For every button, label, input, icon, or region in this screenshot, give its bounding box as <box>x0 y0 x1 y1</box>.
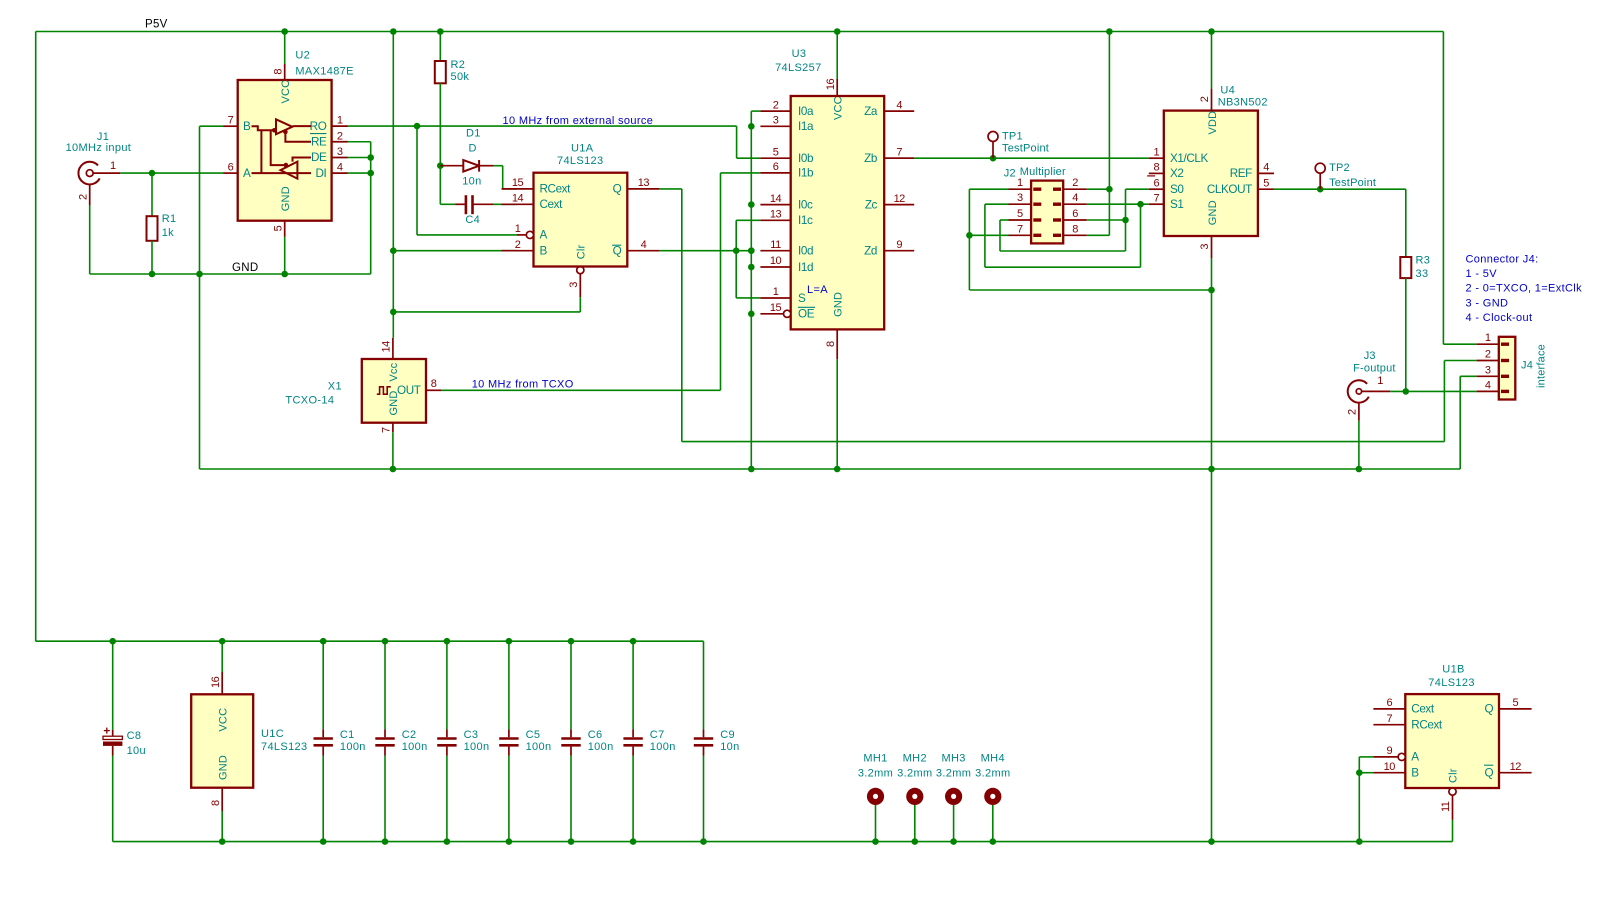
svg-text:D: D <box>469 143 477 155</box>
svg-text:2: 2 <box>515 239 521 251</box>
svg-text:3: 3 <box>1199 244 1211 250</box>
svg-text:8: 8 <box>1072 223 1078 235</box>
svg-text:I0d: I0d <box>798 245 813 258</box>
svg-text:C4: C4 <box>465 214 480 226</box>
svg-text:1: 1 <box>1377 375 1383 387</box>
svg-text:S0: S0 <box>1170 183 1184 196</box>
svg-text:REF: REF <box>1230 167 1252 180</box>
svg-text:B: B <box>243 120 251 133</box>
svg-text:2: 2 <box>773 99 779 111</box>
svg-text:U2: U2 <box>295 50 310 62</box>
svg-text:TestPoint: TestPoint <box>1002 143 1049 155</box>
svg-text:5: 5 <box>1017 208 1023 220</box>
svg-text:Q: Q <box>1484 767 1493 780</box>
svg-text:R2: R2 <box>451 59 466 71</box>
svg-text:74LS257: 74LS257 <box>775 62 822 74</box>
svg-text:MAX1487E: MAX1487E <box>295 66 353 78</box>
svg-text:11: 11 <box>770 239 781 251</box>
svg-text:CLKOUT: CLKOUT <box>1207 183 1252 196</box>
svg-text:16: 16 <box>825 78 837 90</box>
svg-text:U1C: U1C <box>261 728 284 740</box>
svg-text:50k: 50k <box>451 71 470 83</box>
svg-text:VCC: VCC <box>217 708 229 732</box>
svg-text:GND: GND <box>833 292 845 317</box>
svg-text:J3: J3 <box>1364 350 1376 362</box>
svg-text:U1A: U1A <box>571 143 594 155</box>
svg-text:74LS123: 74LS123 <box>1428 677 1475 689</box>
svg-text:VDD: VDD <box>1207 111 1219 135</box>
svg-text:A: A <box>1411 751 1419 764</box>
svg-text:5: 5 <box>1512 697 1518 709</box>
svg-text:1: 1 <box>515 223 521 235</box>
svg-text:6: 6 <box>773 161 779 173</box>
svg-text:4: 4 <box>641 239 647 251</box>
svg-text:C6: C6 <box>588 729 603 741</box>
svg-text:U3: U3 <box>792 48 807 60</box>
svg-text:U4: U4 <box>1220 84 1235 96</box>
svg-text:Multiplier: Multiplier <box>1020 166 1066 178</box>
svg-text:4: 4 <box>896 99 902 111</box>
svg-text:8: 8 <box>431 378 437 390</box>
svg-text:Q: Q <box>613 245 622 258</box>
svg-text:2: 2 <box>1072 177 1078 189</box>
svg-text:3: 3 <box>568 282 580 288</box>
svg-text:7: 7 <box>1386 713 1392 725</box>
svg-text:100n: 100n <box>464 741 490 753</box>
svg-text:3.2mm: 3.2mm <box>858 767 893 779</box>
svg-text:100n: 100n <box>526 741 552 753</box>
svg-text:8: 8 <box>210 800 222 806</box>
svg-text:C7: C7 <box>650 729 665 741</box>
svg-text:15: 15 <box>770 302 782 314</box>
svg-text:9: 9 <box>1386 745 1392 757</box>
svg-text:X1/CLK: X1/CLK <box>1170 152 1208 165</box>
svg-text:X1: X1 <box>328 381 342 393</box>
svg-text:3.2mm: 3.2mm <box>975 767 1010 779</box>
svg-text:100n: 100n <box>402 741 428 753</box>
svg-text:7: 7 <box>1153 192 1159 204</box>
svg-text:MH3: MH3 <box>941 752 965 764</box>
svg-text:C2: C2 <box>402 729 417 741</box>
svg-text:R1: R1 <box>162 213 177 225</box>
svg-text:Zb: Zb <box>864 152 878 165</box>
svg-text:3.2mm: 3.2mm <box>936 767 971 779</box>
svg-text:10 MHz from TCXO: 10 MHz from TCXO <box>472 379 574 391</box>
svg-text:B: B <box>540 245 548 258</box>
svg-text:7: 7 <box>896 146 902 158</box>
svg-text:3: 3 <box>1485 364 1491 376</box>
svg-text:2: 2 <box>337 130 343 142</box>
svg-text:P5V: P5V <box>145 19 168 31</box>
svg-text:4 - Clock-out: 4 - Clock-out <box>1466 312 1533 324</box>
svg-text:OUT: OUT <box>397 384 421 397</box>
svg-text:I0c: I0c <box>798 198 813 211</box>
svg-text:2: 2 <box>1199 96 1211 102</box>
svg-text:X2: X2 <box>1170 167 1184 180</box>
svg-text:OE: OE <box>798 308 815 321</box>
svg-text:2: 2 <box>77 194 89 200</box>
svg-text:15: 15 <box>512 177 524 189</box>
svg-text:1: 1 <box>110 160 116 172</box>
svg-text:TCXO-14: TCXO-14 <box>285 395 334 407</box>
svg-text:9: 9 <box>896 239 902 251</box>
svg-text:C3: C3 <box>464 729 479 741</box>
svg-text:1: 1 <box>1485 332 1491 344</box>
svg-text:1: 1 <box>773 286 779 298</box>
svg-text:D1: D1 <box>466 128 481 140</box>
svg-text:F-output: F-output <box>1353 362 1396 374</box>
svg-text:Clr: Clr <box>1448 768 1460 783</box>
svg-text:C5: C5 <box>526 729 541 741</box>
svg-text:1: 1 <box>337 115 343 127</box>
svg-text:B: B <box>1411 767 1419 780</box>
svg-text:8: 8 <box>1153 162 1159 174</box>
svg-text:14: 14 <box>381 341 393 353</box>
svg-text:I0b: I0b <box>798 152 814 165</box>
svg-text:Connector J4:: Connector J4: <box>1466 253 1539 265</box>
svg-text:NB3N502: NB3N502 <box>1218 96 1268 108</box>
svg-text:VCC: VCC <box>833 96 845 120</box>
svg-text:10: 10 <box>770 255 782 267</box>
svg-text:4: 4 <box>1485 379 1491 391</box>
svg-text:C9: C9 <box>720 729 735 741</box>
svg-text:Cext: Cext <box>540 198 564 211</box>
svg-text:RE: RE <box>311 136 327 149</box>
svg-text:U1B: U1B <box>1442 664 1464 676</box>
svg-text:7: 7 <box>381 427 393 433</box>
svg-text:74LS123: 74LS123 <box>557 155 604 167</box>
svg-text:8: 8 <box>272 69 284 75</box>
svg-text:I1c: I1c <box>798 214 813 227</box>
svg-text:I1a: I1a <box>798 120 814 133</box>
svg-text:1k: 1k <box>162 227 174 239</box>
svg-text:100n: 100n <box>340 741 366 753</box>
svg-text:L=A: L=A <box>807 284 828 296</box>
svg-text:10 MHz from external source: 10 MHz from external source <box>503 115 654 127</box>
svg-text:12: 12 <box>894 193 906 205</box>
svg-text:DI: DI <box>316 167 327 180</box>
svg-text:5: 5 <box>773 146 779 158</box>
svg-text:16: 16 <box>210 676 222 688</box>
svg-text:4: 4 <box>1263 162 1269 174</box>
svg-text:GND: GND <box>388 390 400 415</box>
svg-text:RCext: RCext <box>540 183 572 196</box>
svg-text:13: 13 <box>770 209 782 221</box>
svg-text:7: 7 <box>1017 223 1023 235</box>
svg-text:MH2: MH2 <box>903 752 927 764</box>
svg-text:1: 1 <box>1153 146 1159 158</box>
svg-text:C1: C1 <box>340 729 355 741</box>
svg-text:12: 12 <box>1510 761 1522 773</box>
svg-text:RCext: RCext <box>1411 719 1443 732</box>
svg-text:10u: 10u <box>127 745 146 757</box>
svg-text:100n: 100n <box>650 741 676 753</box>
svg-text:I1d: I1d <box>798 261 813 274</box>
svg-text:MH1: MH1 <box>863 752 887 764</box>
svg-text:100n: 100n <box>588 741 614 753</box>
svg-text:GND: GND <box>1207 200 1219 225</box>
svg-text:GND: GND <box>280 186 292 211</box>
svg-text:J2: J2 <box>1004 168 1016 180</box>
svg-text:J1: J1 <box>97 131 109 143</box>
svg-text:R3: R3 <box>1416 255 1431 267</box>
svg-text:MH4: MH4 <box>981 752 1005 764</box>
svg-text:14: 14 <box>512 193 524 205</box>
svg-text:TestPoint: TestPoint <box>1329 177 1376 189</box>
svg-text:10n: 10n <box>462 175 481 187</box>
svg-text:I1b: I1b <box>798 167 814 180</box>
svg-text:TP2: TP2 <box>1329 162 1350 174</box>
svg-text:8: 8 <box>825 341 837 347</box>
svg-text:2: 2 <box>1347 409 1359 415</box>
svg-text:I0a: I0a <box>798 105 814 118</box>
svg-text:Za: Za <box>864 105 878 118</box>
svg-text:10: 10 <box>1384 761 1396 773</box>
svg-text:14: 14 <box>770 193 782 205</box>
svg-text:2 - 0=TXCO, 1=ExtClk: 2 - 0=TXCO, 1=ExtClk <box>1466 283 1583 295</box>
svg-text:3 - GND: 3 - GND <box>1466 297 1509 309</box>
svg-text:4: 4 <box>337 162 343 174</box>
svg-text:2: 2 <box>1485 349 1491 361</box>
svg-text:Q: Q <box>613 183 622 196</box>
svg-text:S: S <box>798 292 806 305</box>
svg-text:6: 6 <box>1072 208 1078 220</box>
svg-text:DE: DE <box>311 151 327 164</box>
svg-text:3: 3 <box>337 146 343 158</box>
svg-text:5: 5 <box>1263 177 1269 189</box>
svg-text:5: 5 <box>272 225 284 231</box>
svg-text:33: 33 <box>1416 268 1429 280</box>
svg-text:6: 6 <box>1386 697 1392 709</box>
svg-text:3: 3 <box>773 115 779 127</box>
svg-text:A: A <box>540 229 548 242</box>
svg-text:RO: RO <box>310 120 327 133</box>
svg-text:74LS123: 74LS123 <box>261 741 308 753</box>
svg-text:Zc: Zc <box>865 198 878 211</box>
svg-text:A: A <box>243 167 251 180</box>
svg-text:11: 11 <box>1440 801 1452 812</box>
svg-text:GND: GND <box>232 262 258 274</box>
svg-text:7: 7 <box>228 115 234 127</box>
svg-text:Clr: Clr <box>576 245 588 260</box>
svg-text:10MHz input: 10MHz input <box>66 142 132 154</box>
svg-text:13: 13 <box>638 177 650 189</box>
svg-text:6: 6 <box>1153 177 1159 189</box>
svg-text:Q: Q <box>1484 703 1493 716</box>
svg-text:Vcc: Vcc <box>388 362 400 381</box>
svg-text:J4: J4 <box>1521 359 1533 371</box>
svg-text:VCC: VCC <box>280 80 292 104</box>
svg-text:C8: C8 <box>127 730 142 742</box>
svg-text:TP1: TP1 <box>1002 131 1023 143</box>
svg-text:S1: S1 <box>1170 198 1184 211</box>
svg-text:3: 3 <box>1017 192 1023 204</box>
svg-text:Cext: Cext <box>1411 703 1435 716</box>
svg-text:interface: interface <box>1536 344 1548 388</box>
svg-text:1: 1 <box>1017 177 1023 189</box>
svg-text:4: 4 <box>1072 192 1078 204</box>
svg-text:GND: GND <box>217 755 229 780</box>
svg-text:Zd: Zd <box>864 245 877 258</box>
svg-text:1 - 5V: 1 - 5V <box>1466 268 1498 280</box>
svg-text:3.2mm: 3.2mm <box>897 767 932 779</box>
svg-text:6: 6 <box>228 162 234 174</box>
svg-text:10n: 10n <box>720 741 739 753</box>
